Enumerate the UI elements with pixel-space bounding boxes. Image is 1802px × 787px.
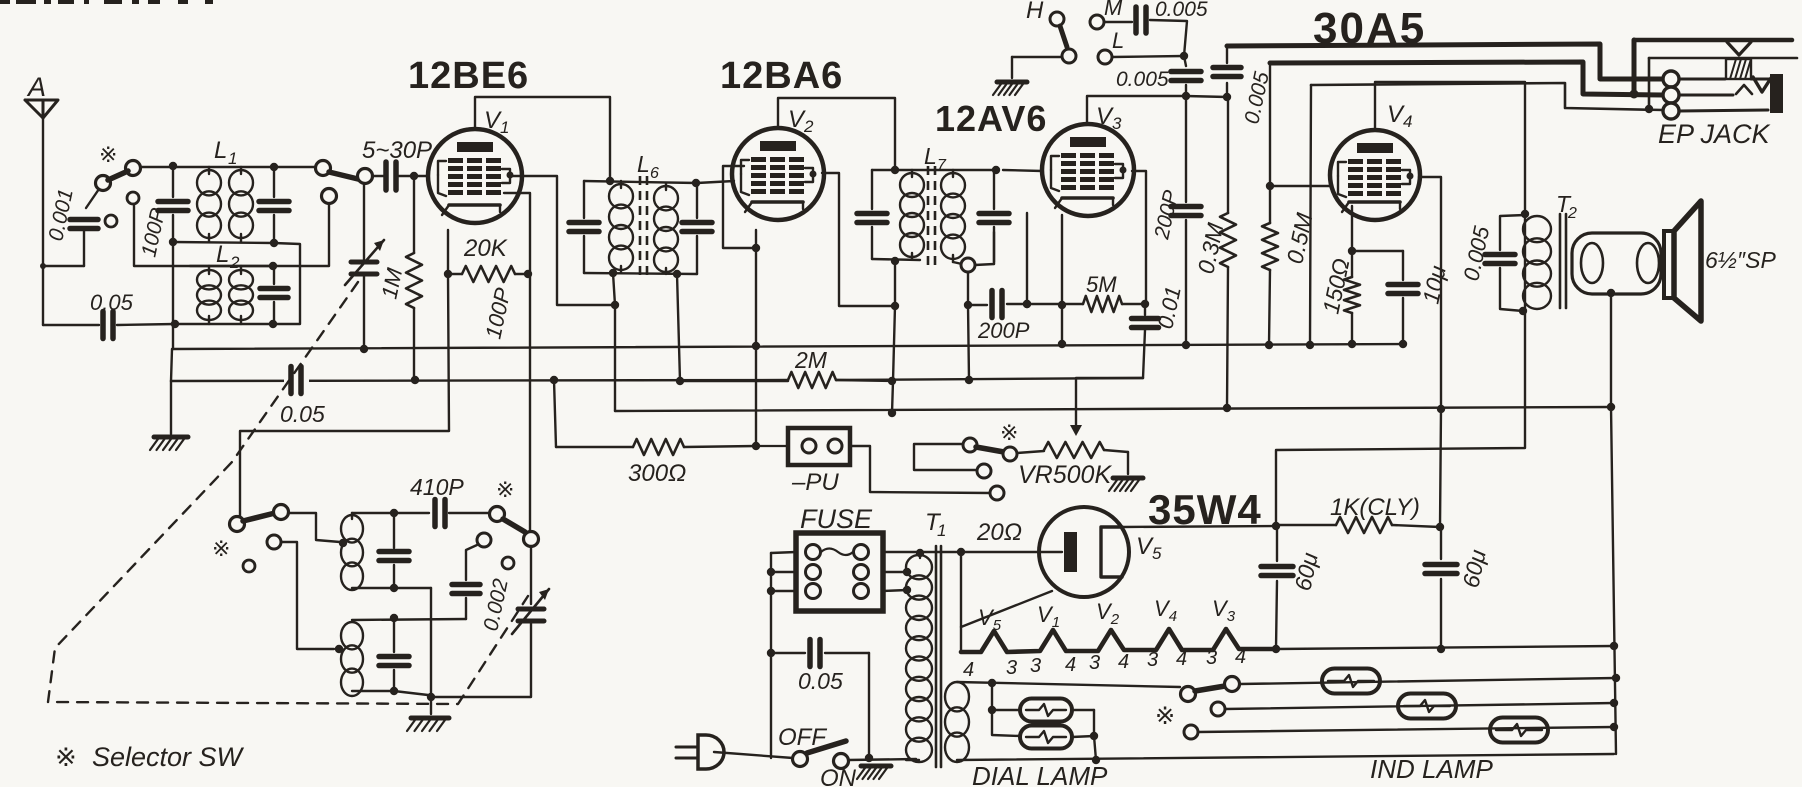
wire osc arm to tap	[288, 513, 347, 547]
svg-text:0.005: 0.005	[1155, 0, 1208, 21]
tube V1 12BE6	[428, 129, 522, 223]
svg-text:12BE6: 12BE6	[408, 55, 529, 97]
svg-text:3: 3	[1206, 647, 1217, 669]
selector arm AB	[976, 447, 1004, 452]
capacitor L7 secondary	[979, 170, 1009, 262]
switch H contact b	[1062, 49, 1076, 63]
label 12BA6	[720, 55, 843, 97]
wire bus2 AVC rail	[171, 376, 1143, 385]
svg-text:3: 3	[1030, 655, 1041, 677]
wire V2 grid tie loop	[723, 166, 756, 248]
capacitor 410P	[435, 500, 445, 527]
selector switch ant contact d	[127, 192, 139, 204]
wire antenna to 0.05	[40, 263, 99, 325]
label V3	[1096, 103, 1122, 133]
label 0.005 T2	[1458, 223, 1494, 283]
resistor 1M	[406, 176, 422, 380]
wire V5 heater stub	[961, 591, 1052, 627]
wire T2 secondary to lamp bus	[1607, 289, 1615, 407]
wire 0.001 bottom	[45, 230, 84, 266]
selector switch ant arm	[108, 171, 128, 180]
svg-text:L: L	[216, 241, 229, 268]
wire 410P to switch	[449, 512, 490, 514]
label heater V3	[1212, 596, 1236, 625]
selector osc contact b	[274, 505, 289, 520]
svg-text:M: M	[1104, 0, 1123, 20]
selector ind contact b	[1225, 677, 1240, 692]
svg-text:0.05: 0.05	[798, 668, 843, 694]
wire fuse taps to T1	[883, 568, 911, 594]
wire V1 plate	[475, 97, 610, 181]
capacitor 200P detector	[992, 291, 1002, 318]
antenna symbol	[25, 100, 58, 118]
wire left vertical to ground	[171, 242, 173, 434]
wire V3 cathode	[1058, 215, 1066, 344]
wire jack top rail	[1634, 40, 1792, 94]
coil L2 secondary	[229, 266, 253, 324]
label 20ohm	[976, 519, 1022, 546]
wire jack t3 right	[1679, 110, 1768, 111]
resistor 0.5M	[1262, 186, 1278, 345]
selector ind contact c	[1211, 702, 1225, 716]
tube V3 12AV6	[1042, 124, 1134, 216]
ground power	[857, 766, 891, 779]
capacitor 200P v3 plate	[1171, 96, 1201, 345]
jack terminal 3	[1663, 103, 1679, 119]
resistor 300 ohm	[556, 439, 760, 455]
ground H	[993, 82, 1027, 95]
svg-text:4: 4	[963, 659, 974, 681]
wire osc bottom bottom lead	[352, 687, 428, 695]
label 410P	[410, 474, 464, 500]
wire V2 cathode	[752, 230, 760, 345]
svg-text:4: 4	[1176, 648, 1187, 670]
selector switch ant contact a	[96, 176, 111, 191]
label heater V2	[1096, 599, 1120, 628]
selector contact D	[990, 486, 1004, 500]
svg-text:※: ※	[1000, 420, 1018, 445]
selector contact B	[1003, 447, 1017, 461]
switch H arm	[1060, 26, 1067, 47]
wire audio to VR	[1070, 378, 1143, 436]
resistor 2M	[680, 372, 892, 388]
switch power contact a	[793, 752, 808, 767]
selector switch ant contact b	[126, 161, 141, 176]
coil osc top	[341, 513, 363, 590]
wire bus1 to PU node	[755, 346, 757, 446]
wire osc varcap branch	[530, 546, 532, 604]
wire L2 bottom lead	[171, 320, 277, 328]
capacitor osc bottom padding	[379, 618, 409, 691]
svg-text:4: 4	[1065, 654, 1076, 676]
wire osc tap2	[281, 542, 343, 653]
switch power arm	[807, 741, 846, 753]
tuning gang dashed link	[48, 282, 528, 704]
wire heater chain	[961, 629, 1280, 653]
label 12BE6	[408, 55, 529, 97]
transformer core T1	[936, 546, 941, 767]
label heater V1	[1037, 602, 1060, 631]
label selector mark VR	[1000, 420, 1018, 445]
wire dial loop top	[957, 679, 1180, 687]
wire V3 diode plate	[1023, 213, 1031, 308]
label V1	[484, 107, 509, 137]
label 0.3M	[1192, 220, 1228, 276]
wire L1-L2 U link	[273, 243, 300, 324]
label 6.5 SP	[1705, 247, 1776, 273]
resistor 5M	[1083, 296, 1122, 312]
coil L6 secondary	[654, 183, 678, 274]
svg-text:12BA6: 12BA6	[720, 55, 843, 97]
selector switch band arm	[329, 172, 358, 179]
jack terminal 1	[1663, 71, 1679, 87]
wire ind line2	[1225, 699, 1618, 709]
wire osc top lead	[352, 509, 429, 517]
svg-text:200P: 200P	[977, 318, 1030, 343]
label 5M	[1086, 272, 1117, 297]
wire mains hot vertical	[767, 553, 775, 758]
label VR500K	[1018, 461, 1112, 489]
capacitor 10u	[1388, 251, 1418, 344]
wire dial lamp feeds	[988, 683, 1020, 736]
wire V1 screen elbow	[512, 176, 613, 305]
wire L1 top lead	[140, 162, 316, 171]
label V2	[788, 106, 814, 136]
capacitor osc top padding	[379, 513, 409, 588]
variable capacitor osc	[512, 589, 549, 634]
label 0.05 antenna	[90, 290, 134, 315]
svg-text:※: ※	[1155, 703, 1175, 730]
svg-text:L: L	[214, 137, 227, 164]
ind lamp 1	[1322, 669, 1380, 694]
switch power contact b	[834, 754, 849, 769]
capacitor 0.05 bus2	[284, 367, 309, 394]
wire ind line3	[1198, 723, 1618, 732]
svg-text:EP JACK: EP JACK	[1658, 119, 1771, 149]
svg-text:VR500K: VR500K	[1018, 461, 1112, 489]
selector osc arm	[243, 513, 275, 521]
svg-text:300Ω: 300Ω	[628, 460, 686, 487]
wire osc top bottom lead	[352, 584, 435, 714]
label IND LAMP	[1370, 754, 1493, 784]
resistor 150 ohm	[1344, 251, 1360, 344]
resistor 1K CLY	[1276, 517, 1444, 533]
svg-text:A: A	[26, 72, 46, 102]
switch 410P contact a	[490, 507, 505, 522]
label V4	[1387, 101, 1412, 131]
svg-text:5M: 5M	[1086, 272, 1117, 297]
svg-text:L: L	[924, 143, 937, 169]
wire jack t2 right	[1679, 94, 1733, 97]
label 0.005 coupling	[1116, 68, 1169, 91]
svg-text:3: 3	[1089, 652, 1100, 674]
variable capacitor tuning 1	[345, 183, 384, 349]
tube V2 12BA6	[732, 128, 824, 220]
wire detector line	[968, 304, 987, 306]
label 0.5M	[1281, 210, 1317, 266]
selector osc contact d	[243, 560, 255, 572]
transformer core L7	[928, 166, 935, 268]
wire switch to T1	[848, 754, 916, 762]
label T2	[1556, 191, 1577, 222]
wire V4 right to bus	[1419, 177, 1441, 408]
wire V3 grid right	[1132, 171, 1149, 308]
svg-text:※: ※	[99, 142, 117, 167]
wire antenna down	[42, 118, 44, 325]
dial lamp 2	[1020, 726, 1072, 749]
wire ind right vertical	[1611, 407, 1616, 754]
capacitor 0.005 to jack	[1213, 46, 1241, 97]
label 0.05 power	[798, 668, 843, 694]
wire V4 plate	[1375, 82, 1525, 214]
selector osc contact c	[267, 535, 281, 549]
wire to 5-30P	[372, 175, 384, 177]
ind lamp 3	[1490, 718, 1548, 743]
label -PU	[791, 469, 839, 496]
capacitor 60u second	[1425, 527, 1457, 649]
label 200P vert	[1150, 188, 1183, 242]
label FUSE	[800, 504, 873, 534]
svg-text:3: 3	[1147, 649, 1158, 671]
wire cathode elbow to osc	[240, 274, 449, 517]
svg-text:7: 7	[937, 157, 947, 174]
transformer T1 primary	[906, 553, 932, 762]
wire dial loop bottom	[957, 754, 1614, 764]
label M	[1104, 0, 1123, 20]
wire V4 grid	[1266, 182, 1331, 190]
svg-text:30A5: 30A5	[1313, 4, 1426, 53]
wire L7 sec to AVC	[964, 272, 972, 380]
svg-text:FUSE: FUSE	[800, 504, 873, 534]
jack small triangle	[1736, 85, 1752, 94]
wire 5-30P to grid	[398, 172, 428, 180]
svg-text:3: 3	[1006, 657, 1017, 679]
wire H to ground	[1012, 57, 1062, 78]
svg-text:DIAL LAMP: DIAL LAMP	[972, 761, 1108, 787]
wire jack t1 right	[1679, 78, 1725, 81]
switch 410P contact b	[524, 532, 539, 547]
svg-text:6: 6	[650, 165, 659, 182]
terminal 0.002 top	[477, 533, 491, 547]
wire L7 top lead	[872, 166, 1000, 174]
label OFF	[778, 724, 827, 751]
coil L1 secondary	[229, 167, 253, 242]
wire selector bracket	[914, 444, 977, 470]
svg-text:0.05: 0.05	[280, 401, 325, 427]
wire L7 sec to V3 grid	[1003, 170, 1042, 171]
svg-text:Selector SW: Selector SW	[92, 742, 245, 772]
svg-text:20K: 20K	[463, 235, 508, 262]
coil L2 primary	[197, 266, 221, 324]
dial lamp 1	[1020, 699, 1072, 722]
capacitor 0.005 T2	[1485, 215, 1525, 311]
resistor 20K	[448, 266, 528, 282]
wire M to cap	[1104, 21, 1132, 23]
wire cap M to node	[1150, 20, 1187, 56]
svg-text:L: L	[637, 151, 650, 177]
wire V1 cathode	[444, 230, 452, 278]
jack tip chevron	[1727, 42, 1751, 55]
wire osc varcap down	[431, 621, 531, 697]
wire L6 bottom lead	[584, 269, 697, 278]
capacitor 0.05 antenna	[103, 312, 113, 339]
label ON	[820, 765, 857, 787]
svg-text:2: 2	[229, 253, 240, 272]
capacitor 0.005 coupling	[1171, 56, 1201, 100]
ground osc	[407, 718, 449, 731]
wire L7 primary bottom	[872, 257, 920, 413]
wire L2 top lead	[190, 265, 273, 267]
wire L6 to V2 grid	[697, 181, 734, 183]
capacitor 100P L1	[158, 167, 188, 242]
wire V5 cathode out	[1122, 522, 1280, 530]
label L1	[214, 137, 237, 168]
wire bus1 ground rail	[173, 340, 1407, 353]
svg-text:20Ω: 20Ω	[976, 519, 1022, 546]
selector ind contact a	[1181, 687, 1196, 702]
svg-text:1: 1	[228, 149, 237, 168]
wire thick line2 to jack	[1270, 62, 1663, 99]
ground left	[150, 437, 188, 450]
svg-text:L: L	[1112, 28, 1124, 53]
heater pin numbers	[963, 646, 1246, 681]
wire L7 secondary bottom	[953, 232, 994, 265]
ind lamp 2	[1398, 694, 1456, 719]
label 60u second	[1457, 547, 1490, 590]
wire ind line1	[1240, 674, 1620, 684]
wire heater chain feed	[960, 552, 962, 652]
terminal 0.002 side	[502, 557, 514, 569]
label ind mark	[1155, 703, 1175, 730]
wire L6 primary to B+	[611, 273, 619, 411]
label 30A5	[1313, 4, 1426, 53]
svg-text:1: 1	[937, 521, 946, 540]
wire screen line3 vertical	[1310, 85, 1311, 345]
wire T1 bottom	[906, 759, 919, 761]
svg-text:1K(CLY): 1K(CLY)	[1330, 494, 1420, 521]
selector contact A	[963, 438, 977, 452]
selector ind contact d	[1184, 725, 1198, 739]
jack chevron 2	[1753, 77, 1771, 92]
resistor VR500K	[1017, 442, 1128, 458]
wire V4 cathode	[1348, 206, 1356, 255]
svg-text:2: 2	[1567, 205, 1577, 222]
svg-text:410P: 410P	[410, 474, 464, 500]
label 35W4	[1148, 486, 1262, 533]
svg-text:4: 4	[1235, 646, 1246, 668]
svg-text:※: ※	[55, 742, 77, 772]
wire osc bottom top lead	[352, 614, 466, 622]
tube V4 30A5	[1330, 130, 1420, 220]
label 200P detector	[977, 318, 1030, 343]
scan artifact top edge	[0, 0, 213, 4]
selector switch band contact e	[316, 161, 331, 176]
wire VR to ground	[1127, 452, 1129, 474]
svg-text:ON: ON	[820, 765, 857, 787]
label 10u	[1417, 263, 1450, 306]
wire fuse left stubs	[767, 552, 796, 595]
wire thick line1 to jack	[1227, 44, 1663, 79]
fuse box	[796, 533, 883, 611]
label DIAL LAMP	[972, 761, 1108, 787]
wire band wire to L2 top	[134, 203, 329, 270]
coil L1 primary	[197, 167, 221, 242]
wire bus2 to 300ohm	[554, 380, 556, 447]
label L7	[924, 143, 947, 174]
label heater V5	[978, 605, 1002, 634]
selector switch ant contact c	[105, 215, 117, 227]
wire fuse to heater	[883, 548, 1062, 557]
wire line3 to jack	[1311, 83, 1663, 113]
terminal L7 secondary	[961, 258, 975, 272]
jack terminal 2	[1663, 87, 1679, 103]
capacitor 5~30P	[386, 162, 396, 190]
capacitor 60u first	[1261, 526, 1293, 649]
svg-text:6½″SP: 6½″SP	[1705, 247, 1776, 273]
svg-text:0.005: 0.005	[1116, 68, 1169, 91]
wire plate node to 30A5 branch	[1186, 93, 1231, 101]
label 0.005 M	[1155, 0, 1208, 21]
power plug	[676, 735, 793, 769]
label L	[1112, 28, 1124, 53]
label 5~30P	[362, 137, 432, 164]
label 0.005 vert	[1240, 70, 1273, 126]
label Selector SW	[55, 742, 245, 772]
wire L1 bottom lead	[169, 238, 278, 247]
jack hatched sleeve	[1726, 59, 1771, 79]
antenna A label	[26, 72, 46, 102]
label 300ohm	[628, 460, 686, 487]
switch 410P arm	[503, 519, 525, 532]
coil L6 primary	[609, 181, 633, 273]
selector switch band contact f	[358, 169, 373, 184]
switch L contact	[1098, 50, 1112, 64]
transformer T1 secondary	[945, 682, 969, 762]
wire bus3 B+ rail	[615, 403, 1615, 417]
ground VR	[1109, 478, 1143, 491]
label 410P mark	[496, 477, 514, 502]
capacitor 0.01	[1132, 304, 1159, 378]
transformer core L6	[640, 176, 647, 280]
wire dial lamp returns	[1072, 710, 1098, 760]
selector contact C	[977, 464, 991, 478]
capacitor L7 primary	[857, 170, 887, 259]
wire heater bus right	[1276, 642, 1618, 653]
capacitor 0.001	[70, 220, 98, 229]
coil osc bottom	[341, 622, 363, 696]
wire PU to selector	[850, 446, 990, 493]
wire jack rail2	[1649, 58, 1797, 109]
label EP JACK	[1658, 119, 1771, 149]
wire V3 plate	[1087, 96, 1186, 124]
jack end bar	[1770, 74, 1783, 113]
label H	[1026, 0, 1044, 24]
capacitor L6 primary	[569, 181, 599, 273]
svg-text:2M: 2M	[794, 347, 828, 373]
wire V2 screen	[822, 173, 895, 306]
label 0.002	[479, 577, 512, 633]
label T1	[925, 509, 946, 540]
selector contact L1 lower	[322, 189, 337, 204]
wire cathode to 10u	[1352, 250, 1403, 252]
label 12AV6	[935, 98, 1047, 139]
tube V5 35W4	[1039, 507, 1129, 597]
PU jack box	[756, 428, 850, 465]
capacitor L6 secondary	[682, 183, 712, 274]
selector SW ant mark	[99, 142, 117, 167]
selector osc contact a	[230, 517, 245, 532]
label 0.001	[44, 187, 77, 243]
